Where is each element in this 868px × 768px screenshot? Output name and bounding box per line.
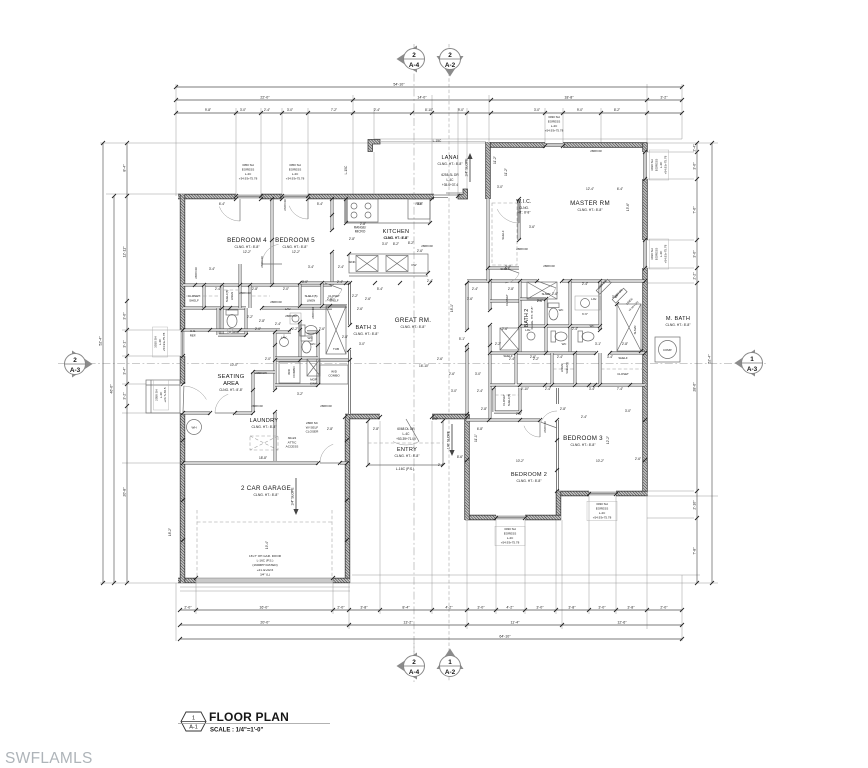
svg-text:L-15C: L-15C [344,165,348,174]
svg-text:SHELF: SHELF [189,299,199,303]
svg-text:LANAI: LANAI [441,155,458,161]
entry door spec [396,427,416,441]
top dimension row 3 [174,111,684,115]
angled linen door lower [612,288,627,303]
closet shelf label west [188,294,200,303]
svg-text:7'-6": 7'-6" [693,206,697,214]
kitchen counter line [346,199,430,223]
svg-text:A-4: A-4 [409,669,420,676]
svg-text:2'-6": 2'-6" [327,297,333,301]
window master right lower (3030 SH) [644,240,647,268]
svg-text:2868 DR: 2868 DR [311,307,315,318]
svg-text:64'-10": 64'-10" [499,635,511,639]
exterior wall: left (west) wall [180,194,185,583]
title underline [178,723,330,725]
svg-text:2: 2 [412,659,416,666]
svg-text:2'-8": 2'-8" [259,319,265,323]
door swing master bath [537,281,556,301]
window master right upper (3030 SH) [644,152,647,179]
svg-text:2358 DR: 2358 DR [255,371,266,375]
svg-text:3'-0": 3'-0" [693,162,697,170]
svg-text:6'-4": 6'-4" [219,202,225,206]
section cut line A-2 vertical [448,44,450,682]
svg-text:8'-10": 8'-10" [425,108,433,112]
svg-text:2868 DR: 2868 DR [285,314,296,318]
svg-text:3030 SH: 3030 SH [504,527,516,531]
svg-text:22'-0": 22'-0" [260,96,270,100]
closet dashed rods west closets [186,290,270,296]
svg-text:BEDROOM 3: BEDROOM 3 [563,435,603,442]
svg-text:+34.93+75.78: +34.93+75.78 [286,176,305,180]
exterior wall: entry south stub west [345,414,380,419]
svg-text:W/D: W/D [287,368,291,375]
svg-text:6258 SL DR: 6258 SL DR [441,173,459,177]
svg-text:20'-8": 20'-8" [123,487,127,497]
exterior wall: master suite top wall [486,142,648,147]
svg-text:+35.6+37.4: +35.6+37.4 [442,183,458,187]
svg-text:3'-0": 3'-0" [693,250,697,258]
svg-text:+54.93+75.78: +54.93+75.78 [545,128,564,132]
kitchen range and micro [346,199,378,222]
svg-text:SCALE : 1/4"=1'-0": SCALE : 1/4"=1'-0" [210,728,263,734]
svg-text:CLNG. HT.: 8'-8": CLNG. HT.: 8'-8" [353,332,379,336]
svg-text:5'-1": 5'-1" [459,337,465,341]
left dimension column inner [123,141,130,585]
window seating area left (3030 SH) [181,330,184,356]
svg-text:12'-11": 12'-11" [123,246,127,258]
washer dryer combo bath3 label [328,370,340,378]
svg-text:3'-4": 3'-4" [209,267,215,271]
svg-text:+34.93+75.78: +34.93+75.78 [239,176,258,180]
svg-text:WC: WC [562,342,567,346]
interior wall: closet dividers west wing [204,264,250,335]
svg-text:CLOSET: CLOSET [505,294,509,306]
scattered small dimension texts [205,108,641,467]
svg-text:6'-6": 6'-6" [582,312,588,316]
section marker 2/A-4 bottom [397,653,425,680]
svg-text:12'-6": 12'-6" [617,621,627,625]
svg-text:3'-0": 3'-0" [382,242,388,246]
svg-text:+54.93+75.78: +54.93+75.78 [593,515,612,519]
window label bedroom 5 [286,163,305,180]
scattered tick marks [181,144,647,580]
interior wall: central hall wall great room side [348,283,351,414]
svg-text:L-4C: L-4C [158,338,162,345]
svg-text:2058 SH: 2058 SH [154,389,158,401]
svg-text:2'-8": 2'-8" [349,237,355,241]
utility toilet WC [301,336,312,353]
bath 3 toilet [300,325,317,336]
svg-text:2'-4": 2'-4" [509,357,515,361]
svg-text:11'-4": 11'-4" [511,621,521,625]
interior wall: bath2 west wall [519,281,522,353]
svg-text:8'-4": 8'-4" [402,606,410,610]
svg-text:11'-2": 11'-2" [493,156,497,164]
svg-text:16'x7' OH GAR. DOOR: 16'x7' OH GAR. DOOR [249,554,282,558]
svg-text:3'-0": 3'-0" [536,606,544,610]
svg-text:2: 2 [412,52,416,59]
small bath toilet [226,310,238,328]
svg-text:2'-8": 2'-8" [327,427,333,431]
svg-text:EGRESS: EGRESS [548,120,561,124]
exterior wall: entry south stub east [432,414,469,419]
svg-text:2'-0": 2'-0" [265,357,271,361]
washer dryer combo unit [279,362,300,383]
door swing bedroom 3 [541,411,557,428]
svg-text:CLNG. HT.: 8'-8": CLNG. HT.: 8'-8" [570,443,596,447]
svg-text:L-16C (P.S.): L-16C (P.S.) [396,467,414,471]
door swing garage to laundry [320,444,340,463]
svg-text:L-4C: L-4C [659,250,663,257]
interior wall: bedroom2/bedroom3 divider [556,388,559,491]
svg-text:L-4C: L-4C [403,432,411,436]
svg-text:2'-8": 2'-8" [342,335,348,339]
svg-text:A-3: A-3 [70,367,81,374]
svg-text:2'-0": 2'-0" [660,606,668,610]
svg-text:REF.: REF. [190,334,197,338]
svg-text:BATH 3: BATH 3 [356,325,377,331]
svg-text:15'-6": 15'-6" [626,203,630,211]
svg-text:A-1: A-1 [189,725,198,731]
svg-text:L-4C: L-4C [659,161,663,168]
svg-text:2'-8": 2'-8" [252,287,258,291]
svg-text:WC: WC [311,342,317,346]
interior wall: bath2 dividers [520,281,600,353]
mop sink label [310,378,317,386]
shower top center [527,282,557,299]
svg-text:CLOSET: CLOSET [188,294,200,298]
svg-text:7'-4": 7'-4" [617,387,623,391]
svg-text:+54.93+75.78: +54.93+75.78 [663,155,667,174]
svg-text:3/4" (L): 3/4" (L) [260,572,270,576]
svg-text:LAV.: LAV. [591,297,597,301]
svg-text:3030 SH: 3030 SH [153,336,157,348]
kitchen refrigerator [408,199,430,219]
garage overhead door panel [196,578,333,583]
svg-text:2'-6": 2'-6" [552,292,558,296]
room label seating area [217,374,244,380]
svg-text:2868 DR: 2868 DR [270,300,281,304]
svg-text:CLOSET: CLOSET [617,372,629,376]
svg-text:3'-0": 3'-0" [451,389,457,393]
svg-text:SINK: SINK [348,260,355,264]
title hexagon 1/A-1 [181,712,206,731]
svg-text:EGRESS: EGRESS [596,507,609,511]
svg-text:2'-8": 2'-8" [481,407,487,411]
svg-text:1/4" SLOPE: 1/4" SLOPE [465,158,469,177]
left dimension column mid [110,194,117,585]
svg-text:L-4C: L-4C [507,536,514,540]
svg-text:3'-1": 3'-1" [123,340,127,348]
svg-text:9'-0": 9'-0" [577,108,583,112]
svg-text:2'-8": 2'-8" [560,407,566,411]
svg-text:LINEN: LINEN [230,292,234,300]
room label bedroom 3 [563,435,603,447]
door swing bedroom 4 [219,199,240,221]
svg-text:3'-4": 3'-4" [589,387,595,391]
svg-text:3'-2": 3'-2" [297,392,303,396]
svg-text:2'-2": 2'-2" [247,315,253,319]
svg-text:3'-8": 3'-8" [627,606,635,610]
svg-text:2'-0": 2'-0" [337,606,345,610]
svg-text:+54.93+75.78: +54.93+75.78 [162,332,166,351]
svg-text:R. SINK: R. SINK [229,330,240,334]
svg-text:DW: DW [412,263,417,267]
svg-text:KITCHEN: KITCHEN [383,229,410,235]
m bath toilet [578,331,594,342]
svg-text:6'-4": 6'-4" [617,187,623,191]
svg-text:18'-8": 18'-8" [259,456,267,460]
top dimension row overall [174,83,684,90]
svg-text:CLNG. HT.: 8'-8": CLNG. HT.: 8'-8" [516,479,542,483]
room label master [570,200,610,212]
kitchen range label [354,226,366,234]
svg-text:3'-4": 3'-4" [123,367,127,375]
svg-text:2'-2": 2'-2" [352,294,358,298]
svg-text:2'-6": 2'-6" [449,372,455,376]
svg-text:CLNG. HT.: 8'-8": CLNG. HT.: 8'-8" [253,493,279,497]
door swing bath 3 [325,283,342,301]
svg-text:CLOSER: CLOSER [306,430,319,434]
svg-text:LINEN: LINEN [560,364,564,372]
utility lavatory [280,338,289,347]
svg-text:52'-4": 52'-4" [708,354,712,364]
angled linen door upper [596,279,611,294]
svg-text:A-2: A-2 [445,669,456,676]
interior wall: bath 3 west wall [299,283,302,360]
svg-text:2'-4": 2'-4" [557,355,563,359]
svg-text:3'-0": 3'-0" [287,108,293,112]
interior wall: bedroom4/bedroom5 divider [271,199,274,285]
WIC shelf dashed outline [492,203,517,265]
room label bedroom 2 [511,472,547,483]
svg-text:1/4" SLOPE: 1/4" SLOPE [291,487,295,506]
window bedroom 5 (3050 SH) [282,195,308,198]
window label bedroom 4 [239,163,258,180]
svg-text:3'-8": 3'-8" [568,606,576,610]
exterior wall: garage east wall [345,417,350,583]
svg-text:CLNG. HT.: 8'-8": CLNG. HT.: 8'-8" [251,425,277,429]
svg-text:COMP.: COMP. [663,348,672,352]
interior wall: kitchen west wall [345,199,348,223]
svg-text:ACCESS: ACCESS [286,445,299,449]
svg-text:CLNG. HT.: 8'-8": CLNG. HT.: 8'-8" [384,236,408,240]
svg-text:2'-6": 2'-6" [502,327,508,331]
svg-text:SHELF(5): SHELF(5) [507,394,511,407]
svg-text:3050 SH: 3050 SH [242,163,254,167]
svg-text:3'-4": 3'-4" [607,355,613,359]
svg-text:2'-10": 2'-10" [693,500,697,510]
section marker 2/A-3 left [65,351,93,378]
svg-text:3'-0": 3'-0" [432,417,438,421]
interior wall: bath3 closet divider [300,283,347,306]
door swing bedroom 2 [524,420,540,437]
small bath lavatory [227,328,233,334]
svg-text:2'-0": 2'-0" [184,606,192,610]
top extension lines [176,84,682,196]
exterior wall: lanai door jamb stub [458,189,468,199]
svg-text:L-4C: L-4C [447,178,455,182]
room label bath 3 [353,325,379,336]
A/C compressor pad [655,337,680,362]
interior wall: garage north wall [183,462,347,465]
interior wall: WIC/master divider [518,199,521,240]
svg-text:TUB: TUB [333,347,339,351]
interior wall: small bath toilet room [218,308,246,335]
svg-text:10'-2": 10'-2" [596,459,604,463]
exterior wall: entry east wall [464,414,469,520]
scattered rotated dimension texts [168,156,630,549]
svg-text:12'-2": 12'-2" [292,250,300,254]
svg-text:2'-4": 2'-4" [264,108,270,112]
svg-text:+21.4/+62.6: +21.4/+62.6 [257,568,274,572]
svg-text:3030 SH: 3030 SH [650,159,654,171]
mop sink [307,359,320,376]
svg-text:3'-4": 3'-4" [308,265,314,269]
room label bedroom 5 [275,237,315,249]
interior wall: bedroom2 closet [494,388,520,412]
svg-text:3'-0": 3'-0" [625,409,631,413]
svg-text:18'-2": 18'-2" [168,528,172,536]
svg-text:4'-2": 4'-2" [506,606,514,610]
svg-text:19'-4": 19'-4" [265,541,269,549]
svg-text:SHELF: SHELF [618,356,628,360]
svg-text:+54.93+75.78: +54.93+75.78 [663,244,667,263]
svg-text:COMBO: COMBO [292,366,296,378]
kitchen island counter [349,254,428,273]
svg-text:2'-6": 2'-6" [635,457,641,461]
closet dashed rods east closets [495,369,643,395]
svg-text:8'-6": 8'-6" [457,455,463,459]
svg-text:3'-0": 3'-0" [534,108,540,112]
svg-text:2'-0": 2'-0" [283,287,289,291]
svg-text:2'-4": 2'-4" [337,280,343,284]
svg-text:3'-0": 3'-0" [417,202,423,206]
attic access label [286,436,299,449]
svg-text:11'-2": 11'-2" [504,168,508,176]
window master top (3030 SH) [545,144,563,147]
svg-text:CLNG. HT.: 8'-8": CLNG. HT.: 8'-8" [577,208,603,212]
svg-text:3030 SH: 3030 SH [650,248,654,260]
top dimension row 2 [174,96,684,103]
svg-text:3'-0": 3'-0" [359,342,365,346]
room label laundry [250,418,279,429]
interior wall: utility room walls [275,332,318,461]
interior wall: bedroom5 east closet wall [331,199,334,285]
svg-text:9'-8": 9'-8" [205,108,211,112]
bottom dimension row 2 [178,621,684,628]
window label bedroom 3 [587,501,617,521]
svg-text:EGRESS: EGRESS [655,248,659,261]
svg-text:2'-2": 2'-2" [495,342,501,346]
svg-text:SHELF(5): SHELF(5) [225,290,229,303]
svg-text:HT.: 8'-8": HT.: 8'-8" [518,210,531,214]
svg-text:SHELF(5): SHELF(5) [305,294,318,298]
svg-text:3'-0": 3'-0" [475,372,481,376]
interior wall: bath south wall [490,352,645,355]
svg-text:L-4C: L-4C [599,511,606,515]
svg-text:3050 SH: 3050 SH [289,163,301,167]
svg-text:18'-1": 18'-1" [450,304,454,312]
interior wall: master south wall [467,280,645,283]
svg-text:CLNG. HT.: 8'-8": CLNG. HT.: 8'-8" [234,245,260,249]
svg-text:6068 DL DR: 6068 DL DR [397,427,415,431]
washer dryer combo closet bath3 [320,365,348,384]
room label bedroom 4 [227,237,267,249]
svg-text:8'-4": 8'-4" [123,164,127,172]
svg-text:2'-4": 2'-4" [581,415,587,419]
lanai screen enclosure outline [374,142,486,195]
svg-text:+54.93+75.78: +54.93+75.78 [501,540,520,544]
svg-text:2'-2": 2'-2" [533,357,539,361]
svg-text:CLOSET: CLOSET [502,394,506,406]
svg-text:9'-0": 9'-0" [458,108,464,112]
m bath lav upper [575,296,600,310]
svg-text:7'-8": 7'-8" [693,547,697,555]
svg-text:2868 DR: 2868 DR [320,404,331,408]
svg-text:EGRESS: EGRESS [289,168,302,172]
svg-text:3'-2": 3'-2" [660,96,668,100]
svg-text:L-4C: L-4C [551,124,558,128]
svg-text:2: 2 [448,52,452,59]
interior wall: bath 3 north wall [300,282,350,285]
door swing hall to seating [215,394,235,413]
entry slope arrow [447,424,455,456]
svg-text:12'-4": 12'-4" [586,187,594,191]
svg-text:2'-6": 2'-6" [365,297,371,301]
svg-text:CLNG. HT.: 8'-8": CLNG. HT.: 8'-8" [219,388,243,392]
exterior wall: garage south wall [178,578,350,583]
svg-text:CLNG. HT.: 8'-8": CLNG. HT.: 8'-8" [665,323,691,327]
door swing seating french door [183,386,206,413]
svg-text:BEDROOM 4: BEDROOM 4 [227,237,267,244]
svg-text:11'-1": 11'-1" [474,434,478,442]
svg-text:SHWR: SHWR [542,292,551,296]
left dimension column outer [99,141,106,585]
svg-text:2'-2": 2'-2" [292,327,298,331]
svg-text:2'-8": 2'-8" [373,427,379,431]
bay window bump-out at seating area [146,380,180,413]
svg-text:L-4C: L-4C [245,172,252,176]
room label 2 car garage [241,485,291,497]
interior wall: WIC east wall [487,199,490,281]
interior wall: WIC south wall [488,267,519,270]
svg-text:+53.39+71.09: +53.39+71.09 [396,437,416,441]
svg-text:2'-4": 2'-4" [572,327,578,331]
svg-text:3030 SH: 3030 SH [548,115,560,119]
interior wall: seating/laundry divider [183,372,253,413]
svg-text:8'-2": 8'-2" [614,108,620,112]
wic clng [518,206,531,214]
entry porch slab outline [368,421,443,465]
svg-text:12'-2": 12'-2" [606,436,610,444]
svg-text:WC: WC [590,324,595,328]
svg-text:2'-0": 2'-0" [255,327,261,331]
exterior wall: right (east) wall [642,143,647,496]
bath 2 lav lower [527,332,535,340]
svg-text:6'-8": 6'-8" [477,427,483,431]
svg-text:L-16C (P.S.): L-16C (P.S.) [257,559,274,563]
interior wall: bedroom2 north wall [467,419,540,422]
svg-text:2668 DR: 2668 DR [543,421,547,432]
svg-text:3'-2": 3'-2" [123,392,127,400]
svg-text:SEATING: SEATING [217,374,244,380]
garage slope arrow [291,478,299,515]
exterior wall: lanai corner column [368,140,380,152]
svg-text:13'-2": 13'-2" [403,621,413,625]
section cut line 2/A-4 vertical [413,44,415,682]
interior wall: utility inner shelves [275,358,318,385]
